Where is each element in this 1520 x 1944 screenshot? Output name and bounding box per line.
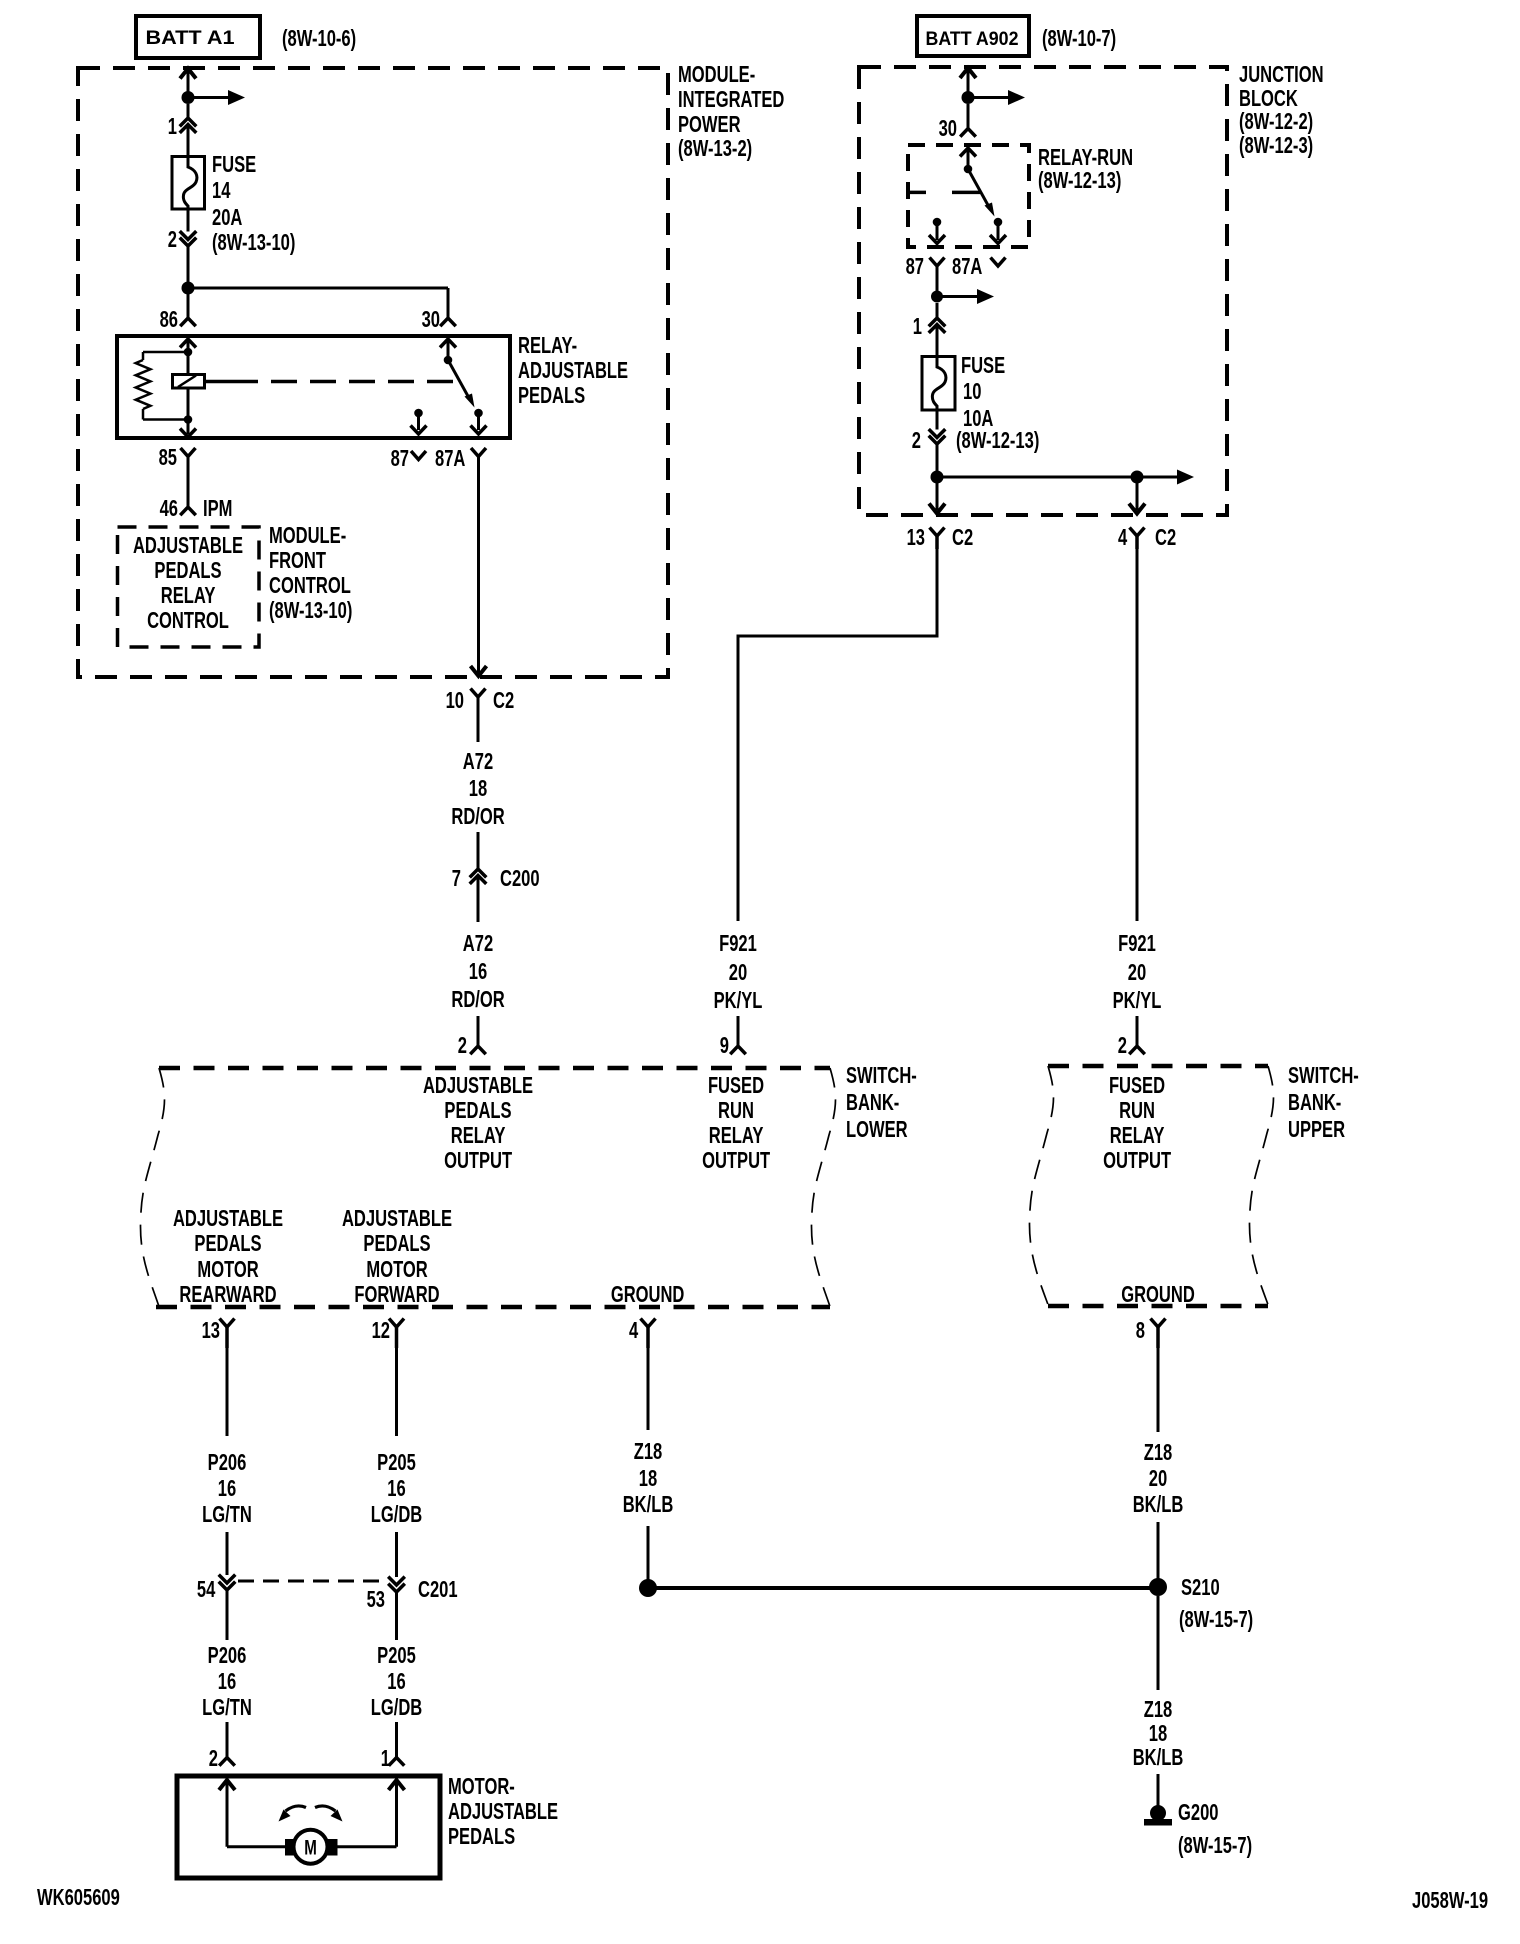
svg-text:BK/LB: BK/LB: [1133, 1492, 1184, 1517]
svg-text:J058W-19: J058W-19: [1412, 1888, 1488, 1913]
svg-text:FUSED: FUSED: [1109, 1073, 1165, 1098]
relay-run switch blade: [968, 169, 989, 207]
IPM pin 46 connector: [180, 507, 196, 515]
relay-run dashed box: [908, 145, 1029, 247]
wire splice to C2 pin 4 arrow: [1136, 483, 1139, 510]
svg-text:PK/YL: PK/YL: [714, 988, 763, 1013]
splice S210: [1149, 1578, 1167, 1596]
svg-text:RELAY-: RELAY-: [518, 333, 577, 358]
wire to C200: [477, 832, 480, 869]
svg-text:C2: C2: [952, 525, 973, 550]
switch bank lower pin 9: [730, 1046, 746, 1054]
svg-text:ADJUSTABLE: ADJUSTABLE: [342, 1206, 452, 1231]
relay-run contact 87 node: [933, 218, 942, 227]
svg-text:13: 13: [907, 525, 925, 550]
splice bus wire: [648, 1586, 1158, 1590]
switch-bank-lower bottom edge: [156, 1305, 830, 1310]
connector C201 dashed link: [238, 1580, 388, 1583]
svg-text:M: M: [304, 1835, 317, 1859]
svg-text:18: 18: [469, 776, 487, 801]
wire batt A1 arrow up: [180, 69, 196, 79]
wire connector 1 to fuse 10: [936, 325, 939, 358]
wire to switch bank pin 2: [477, 1016, 480, 1046]
svg-text:ADJUSTABLE: ADJUSTABLE: [133, 533, 243, 558]
svg-text:WK605609: WK605609: [37, 1885, 120, 1910]
battery feed box BATT A902: [917, 16, 1029, 56]
node splice on batt A902 feed: [962, 91, 975, 104]
relay coil top node: [184, 348, 193, 357]
svg-text:12: 12: [372, 1318, 390, 1343]
svg-text:PEDALS: PEDALS: [363, 1231, 430, 1256]
wire pin 87 to splice: [936, 266, 939, 297]
relay coil symbol: [173, 375, 205, 389]
battery feed box BATT A1: [136, 16, 260, 58]
connector C201 pin 54: [219, 1575, 236, 1583]
switch-bank-upper left torn edge: [1029, 1066, 1053, 1304]
svg-text:SWITCH-: SWITCH-: [846, 1063, 917, 1088]
wire pin 8 down: [1157, 1348, 1160, 1432]
wire pin 87A down to module edge: [477, 457, 480, 674]
branch arrow right from fused splice: [1137, 476, 1177, 479]
svg-text:(8W-12-2): (8W-12-2): [1239, 109, 1313, 134]
svg-text:MODULE-: MODULE-: [678, 62, 755, 87]
wire C2 pin 4 down: [1136, 549, 1139, 921]
fuse F10 body: [922, 357, 955, 411]
relay switch pin 30 arrow: [440, 339, 456, 348]
connector C200 pin 7: [470, 869, 487, 877]
svg-text:RELAY: RELAY: [451, 1123, 506, 1148]
svg-text:C2: C2: [1155, 525, 1176, 550]
svg-text:85: 85: [159, 445, 177, 470]
wire C2 pin 10 down: [477, 697, 480, 742]
svg-text:RD/OR: RD/OR: [451, 987, 505, 1012]
motor bottom link wire: [227, 1845, 397, 1848]
in-line connector pin 1 double chevron: [180, 118, 197, 126]
svg-text:(8W-12-13): (8W-12-13): [1038, 168, 1121, 193]
svg-text:LG/DB: LG/DB: [371, 1695, 423, 1720]
svg-text:INTEGRATED: INTEGRATED: [678, 87, 784, 112]
node splice fused run output left: [931, 471, 944, 484]
relay pin 87A arrow: [477, 413, 480, 430]
wire C201 pin 54 down: [226, 1590, 229, 1640]
svg-text:2: 2: [168, 227, 177, 252]
svg-text:MOTOR: MOTOR: [197, 1257, 259, 1282]
svg-text:ADJUSTABLE: ADJUSTABLE: [518, 358, 628, 383]
svg-text:16: 16: [387, 1476, 405, 1501]
svg-text:PEDALS: PEDALS: [154, 558, 221, 583]
relay-adjustable pedals box: [117, 336, 510, 438]
svg-text:A72: A72: [463, 931, 493, 956]
svg-text:(8W-12-13): (8W-12-13): [956, 428, 1039, 453]
motor lead 2 arrow: [219, 1780, 235, 1790]
svg-text:FUSE: FUSE: [961, 353, 1005, 378]
svg-text:PK/YL: PK/YL: [1113, 988, 1162, 1013]
switch bank upper pin 2: [1129, 1046, 1145, 1054]
svg-text:BANK-: BANK-: [1288, 1090, 1341, 1115]
wire pin 13 down: [226, 1348, 229, 1436]
svg-text:FUSED: FUSED: [708, 1073, 764, 1098]
wire to C201 pin 53: [395, 1532, 398, 1577]
wire connector 1 to fuse 14: [187, 125, 190, 158]
switch-bank-lower top edge: [159, 1066, 830, 1071]
svg-text:PEDALS: PEDALS: [448, 1824, 515, 1849]
relay switch blade: [448, 360, 469, 398]
junction block connector pin 1: [929, 318, 946, 326]
wire junction block pin 13 to bank pin 9: [738, 549, 937, 921]
switch-bank-lower right torn edge: [811, 1068, 835, 1306]
svg-text:C2: C2: [493, 688, 514, 713]
svg-text:BK/LB: BK/LB: [1133, 1745, 1184, 1770]
wire to C201 pin 54: [226, 1532, 229, 1575]
fuse F14 body: [172, 157, 205, 210]
svg-text:30: 30: [939, 116, 957, 141]
svg-text:1: 1: [381, 1746, 390, 1771]
wire S210 to G200: [1157, 1596, 1160, 1690]
svg-text:P206: P206: [208, 1450, 247, 1475]
wire pin 4 down: [647, 1348, 650, 1430]
relay suppression resistor: [143, 351, 188, 354]
wire to splice S210 left: [647, 1526, 650, 1580]
node splice fused run output right: [1131, 471, 1144, 484]
wire C200 down: [477, 876, 480, 922]
svg-text:1: 1: [168, 114, 177, 139]
wire pin 12 down: [395, 1348, 398, 1436]
wire splice to C2 pin 13 arrow: [936, 483, 939, 510]
svg-text:(8W-13-2): (8W-13-2): [678, 136, 752, 161]
svg-text:4: 4: [629, 1318, 639, 1343]
svg-text:18: 18: [1149, 1721, 1167, 1746]
svg-text:ADJUSTABLE: ADJUSTABLE: [173, 1206, 283, 1231]
svg-text:2: 2: [1118, 1033, 1127, 1058]
svg-text:Z18: Z18: [1144, 1697, 1173, 1722]
svg-text:18: 18: [639, 1466, 657, 1491]
svg-text:16: 16: [218, 1669, 236, 1694]
svg-text:20A: 20A: [212, 205, 242, 230]
wire branch down to pin 30: [447, 288, 450, 318]
svg-text:BK/LB: BK/LB: [623, 1492, 674, 1517]
switch-bank-upper right torn edge: [1249, 1066, 1273, 1304]
relay-run contact 87A node: [994, 218, 1003, 227]
svg-text:20: 20: [729, 960, 747, 985]
svg-text:MOTOR: MOTOR: [366, 1257, 428, 1282]
adjustable pedals relay control dashed box: [118, 527, 260, 647]
switch-bank-upper bottom edge: [1048, 1304, 1268, 1309]
svg-text:LOWER: LOWER: [846, 1117, 908, 1142]
in-line connector pin 2 double chevron: [180, 231, 197, 239]
wire fuse to connector 2: [187, 209, 190, 232]
branch arrow right from 87 splice: [937, 295, 977, 298]
switch-bank-lower left torn edge: [140, 1068, 164, 1306]
svg-text:9: 9: [720, 1033, 729, 1058]
svg-text:C200: C200: [500, 866, 540, 891]
node splice below relay-run: [931, 291, 943, 303]
svg-text:(8W-10-7): (8W-10-7): [1042, 26, 1116, 51]
svg-text:BATT A1: BATT A1: [146, 28, 235, 49]
svg-text:46: 46: [160, 496, 178, 521]
relay contact 87 node: [414, 409, 423, 418]
wire splice down to pin 86: [187, 288, 190, 318]
svg-text:20: 20: [1128, 960, 1146, 985]
svg-text:PEDALS: PEDALS: [444, 1098, 511, 1123]
svg-text:87A: 87A: [435, 446, 465, 471]
wire to bank pin 9: [737, 1016, 740, 1046]
svg-text:POWER: POWER: [678, 112, 741, 137]
svg-text:C201: C201: [418, 1577, 458, 1602]
svg-text:10: 10: [963, 379, 981, 404]
motor rotation arrows: [286, 1806, 307, 1811]
node splice above relay: [182, 282, 195, 295]
svg-text:LG/DB: LG/DB: [371, 1502, 423, 1527]
svg-text:S210: S210: [1181, 1575, 1220, 1600]
wire splice to relay pin 30 branch: [187, 287, 449, 290]
svg-text:LG/TN: LG/TN: [202, 1695, 252, 1720]
svg-text:54: 54: [197, 1577, 216, 1602]
relay coil bottom arrow to pin 85: [187, 420, 190, 435]
svg-text:16: 16: [469, 959, 487, 984]
svg-text:FRONT: FRONT: [269, 548, 327, 573]
svg-text:RELAY: RELAY: [709, 1123, 764, 1148]
svg-text:Z18: Z18: [634, 1439, 663, 1464]
wire C201 pin 53 down: [395, 1592, 398, 1640]
relay coil pin 86 arrow: [180, 339, 196, 348]
svg-text:16: 16: [218, 1476, 236, 1501]
wire splice to connector 1: [187, 104, 190, 118]
svg-text:GROUND: GROUND: [611, 1282, 685, 1307]
relay-run pin 87A arrow: [997, 222, 1000, 240]
module-integrated power dashed box: [78, 68, 668, 677]
svg-text:(8W-15-7): (8W-15-7): [1178, 1833, 1252, 1858]
svg-text:(8W-12-3): (8W-12-3): [1239, 133, 1313, 158]
svg-text:F921: F921: [719, 931, 757, 956]
relay pin 87 stub arrow: [417, 413, 420, 430]
wire to motor pin 2: [226, 1722, 229, 1758]
svg-text:FUSE: FUSE: [212, 152, 256, 177]
motor M1 symbol: [294, 1830, 328, 1864]
motor-adjustable pedals box: [177, 1776, 440, 1878]
svg-text:RUN: RUN: [1119, 1098, 1155, 1123]
svg-text:FORWARD: FORWARD: [354, 1282, 439, 1307]
svg-text:ADJUSTABLE: ADJUSTABLE: [448, 1799, 558, 1824]
svg-text:1: 1: [913, 314, 922, 339]
svg-text:53: 53: [367, 1587, 385, 1612]
connector C201 pin 53: [388, 1577, 405, 1585]
svg-text:P206: P206: [208, 1643, 247, 1668]
svg-text:OUTPUT: OUTPUT: [702, 1148, 771, 1173]
relay pin 86: [180, 318, 196, 326]
svg-text:RELAY: RELAY: [1110, 1123, 1165, 1148]
svg-text:4: 4: [1118, 525, 1128, 550]
motor lead 1 arrow: [389, 1780, 405, 1790]
svg-text:10: 10: [446, 688, 464, 713]
branch arrow right from A902 splice: [968, 96, 1008, 99]
wire to motor pin 1: [395, 1722, 398, 1758]
svg-text:RD/OR: RD/OR: [451, 804, 505, 829]
svg-text:BATT A902: BATT A902: [926, 29, 1019, 50]
svg-text:BANK-: BANK-: [846, 1090, 899, 1115]
svg-text:2: 2: [209, 1746, 218, 1771]
switch bank lower pin 2: [470, 1046, 486, 1054]
relay contact 87A node: [474, 409, 483, 418]
wire to bank upper pin 2: [1136, 1016, 1139, 1046]
svg-text:13: 13: [202, 1318, 220, 1343]
relay coil wire: [187, 352, 190, 375]
motor pin 2: [219, 1758, 235, 1766]
wire connector 2 to splice: [187, 246, 190, 288]
svg-text:2: 2: [912, 428, 921, 453]
wire pin 85 to IPM pin 46: [187, 457, 190, 508]
svg-text:87: 87: [906, 254, 924, 279]
branch arrow right from batt A1 splice: [188, 96, 228, 99]
node splice left: [639, 1579, 657, 1597]
svg-text:JUNCTION: JUNCTION: [1239, 62, 1324, 87]
svg-text:PEDALS: PEDALS: [518, 383, 585, 408]
junction block dashed box: [859, 67, 1227, 515]
relay armature dashed link: [205, 380, 233, 384]
wire to ground G200: [1157, 1774, 1160, 1806]
relay-run switch arrow: [960, 148, 976, 157]
svg-text:PEDALS: PEDALS: [194, 1231, 261, 1256]
svg-text:OUTPUT: OUTPUT: [444, 1148, 513, 1173]
svg-text:RELAY: RELAY: [161, 583, 216, 608]
svg-text:CONTROL: CONTROL: [147, 608, 229, 633]
svg-text:87: 87: [391, 446, 409, 471]
relay-run armature dashed link: [908, 191, 926, 195]
relay pin 30: [440, 318, 456, 326]
svg-text:UPPER: UPPER: [1288, 1117, 1345, 1142]
svg-text:P205: P205: [377, 1643, 416, 1668]
svg-text:ADJUSTABLE: ADJUSTABLE: [423, 1073, 533, 1098]
svg-text:2: 2: [458, 1033, 467, 1058]
svg-text:LG/TN: LG/TN: [202, 1502, 252, 1527]
wire fuse to splice: [936, 410, 939, 430]
node splice on batt A1 feed: [182, 91, 195, 104]
svg-text:CONTROL: CONTROL: [269, 573, 351, 598]
svg-text:F921: F921: [1118, 931, 1156, 956]
wire splice to splice right: [937, 476, 1137, 479]
svg-text:A72: A72: [463, 749, 493, 774]
svg-text:(8W-10-6): (8W-10-6): [282, 26, 356, 51]
svg-text:16: 16: [387, 1669, 405, 1694]
wire batt A902 arrow up: [960, 68, 976, 78]
svg-text:87A: 87A: [952, 254, 982, 279]
svg-text:(8W-13-10): (8W-13-10): [269, 598, 352, 623]
relay-run pin 30: [960, 129, 976, 137]
switch-bank-upper top edge: [1048, 1064, 1268, 1069]
svg-text:RUN: RUN: [718, 1098, 754, 1123]
svg-text:MOTOR-: MOTOR-: [448, 1774, 515, 1799]
svg-text:IPM: IPM: [203, 496, 232, 521]
wire to splice S210: [1157, 1522, 1160, 1580]
relay-run common node: [964, 165, 973, 174]
svg-text:G200: G200: [1178, 1800, 1219, 1825]
svg-text:7: 7: [452, 866, 461, 891]
svg-text:(8W-15-7): (8W-15-7): [1179, 1607, 1253, 1632]
svg-text:BLOCK: BLOCK: [1239, 86, 1298, 111]
ground G200 symbol: [1150, 1805, 1166, 1821]
relay switch common node: [444, 356, 453, 365]
svg-text:REARWARD: REARWARD: [179, 1282, 276, 1307]
svg-text:30: 30: [422, 307, 440, 332]
svg-text:Z18: Z18: [1144, 1440, 1173, 1465]
svg-text:OUTPUT: OUTPUT: [1103, 1148, 1172, 1173]
svg-text:14: 14: [212, 178, 231, 203]
relay coil bottom node: [184, 415, 193, 424]
svg-text:(8W-13-10): (8W-13-10): [212, 230, 295, 255]
svg-text:RELAY-RUN: RELAY-RUN: [1038, 145, 1133, 170]
svg-text:20: 20: [1149, 1466, 1167, 1491]
svg-text:GROUND: GROUND: [1121, 1282, 1195, 1307]
svg-text:P205: P205: [377, 1450, 416, 1475]
motor pin 1: [389, 1758, 405, 1766]
wire splice to relay-run pin 30: [967, 104, 970, 129]
svg-text:8: 8: [1136, 1318, 1145, 1343]
svg-text:86: 86: [160, 307, 178, 332]
wire to connector 1: [936, 303, 939, 318]
svg-text:SWITCH-: SWITCH-: [1288, 1063, 1359, 1088]
svg-text:MODULE-: MODULE-: [269, 523, 346, 548]
relay-run pin 87 arrow: [936, 222, 939, 240]
